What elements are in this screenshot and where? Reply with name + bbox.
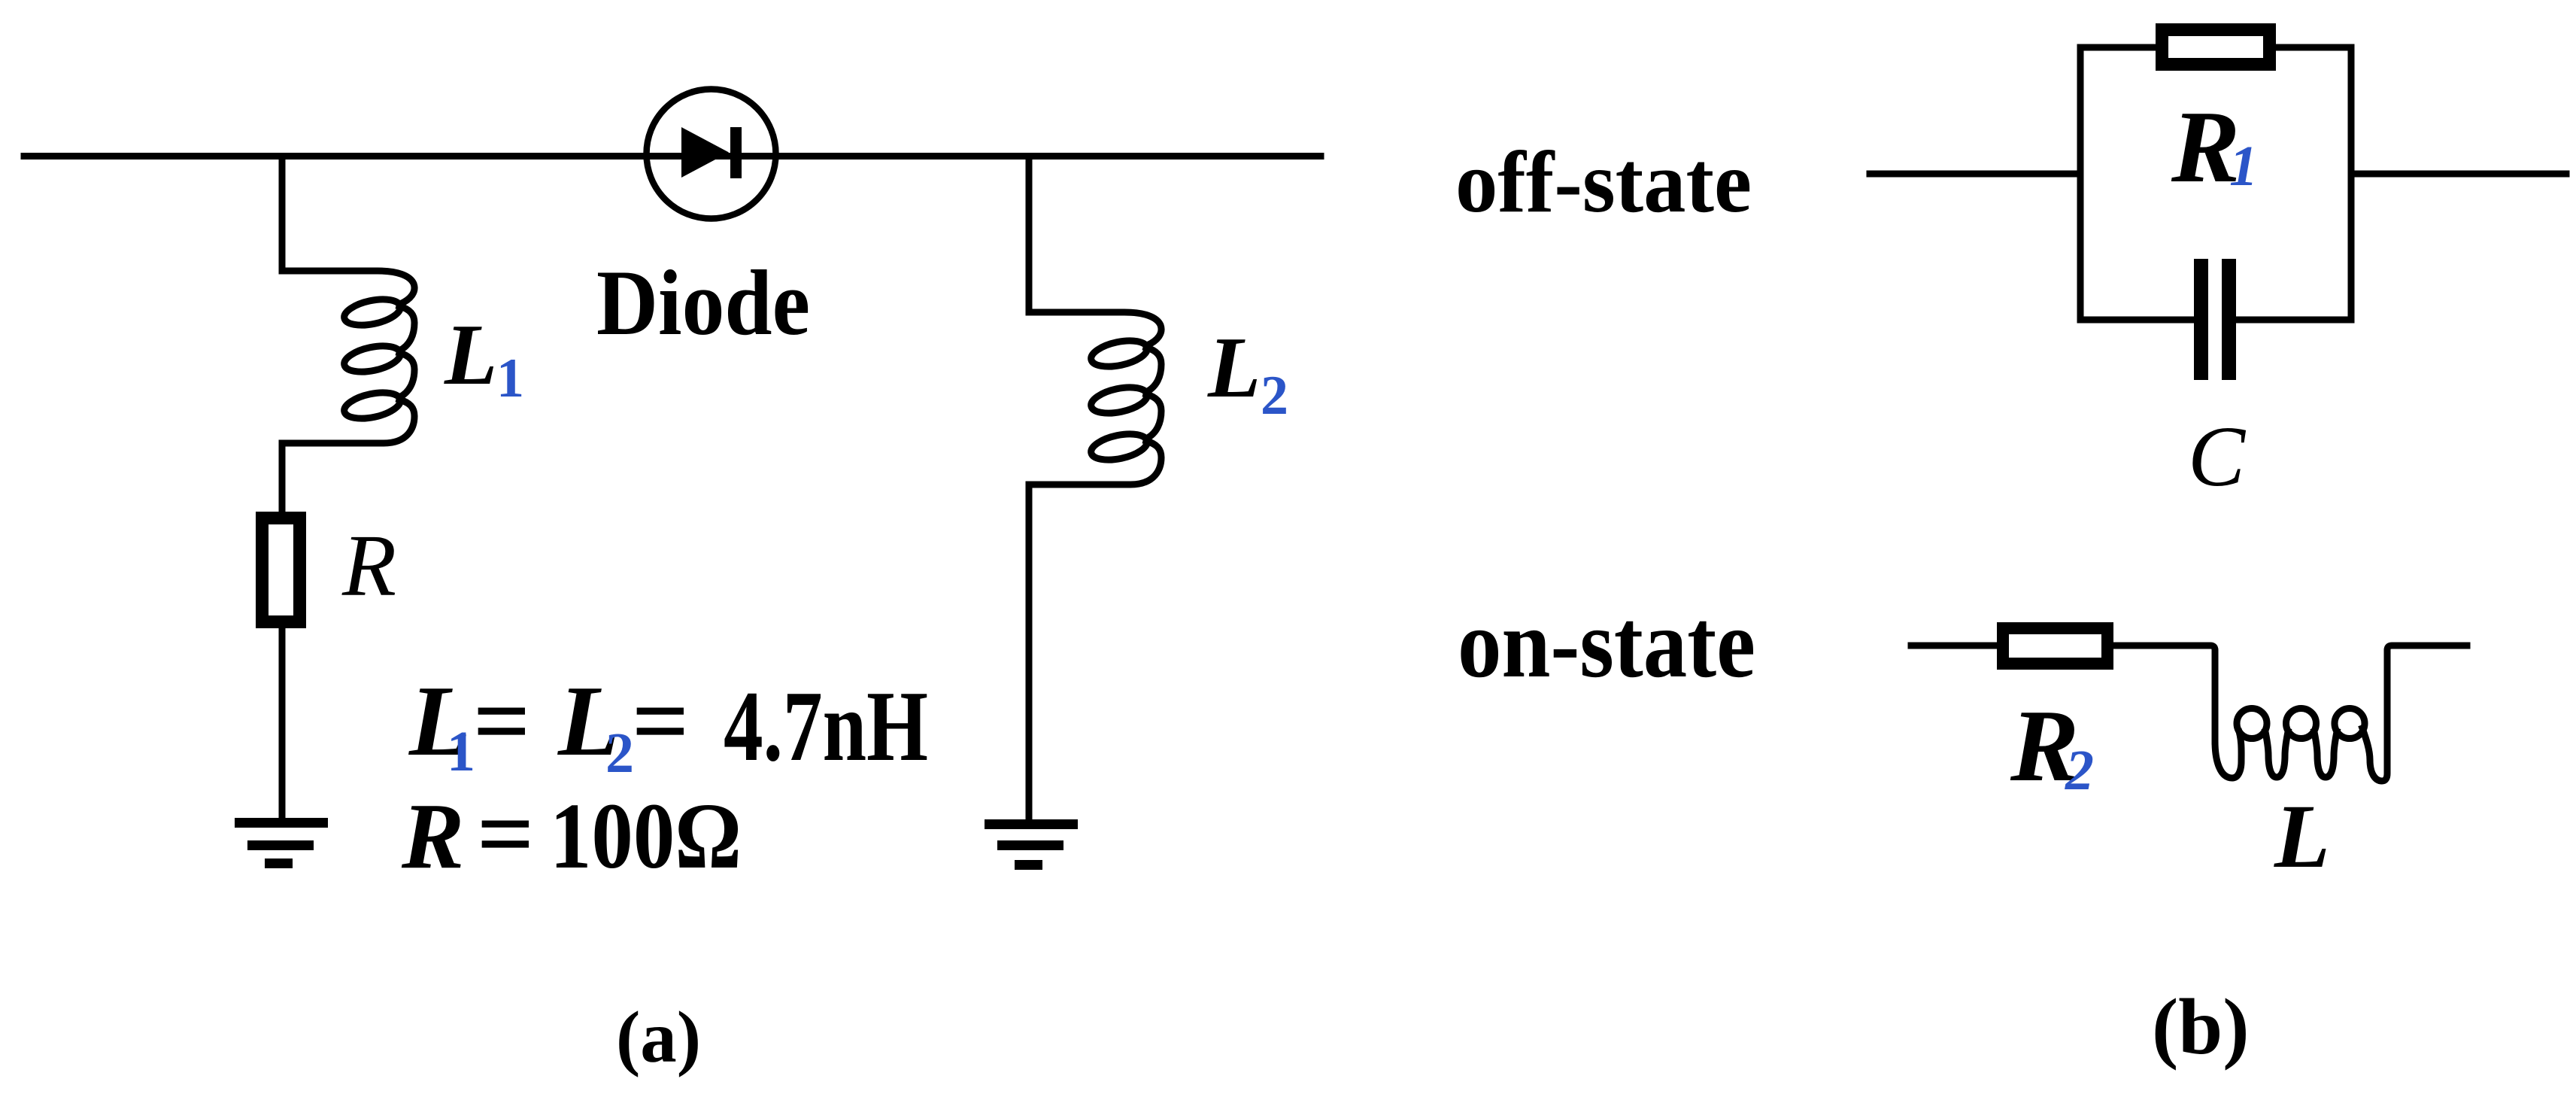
capacitor C plates — [2194, 259, 2236, 380]
resistor R1 — [2162, 30, 2270, 65]
svg-text:1: 1 — [496, 348, 524, 409]
diode D1 cathode bar — [730, 127, 742, 178]
svg-text:(b): (b) — [2152, 983, 2250, 1071]
svg-text:=: = — [477, 778, 534, 889]
inductor L2 — [1029, 312, 1161, 485]
resistor R2 — [2003, 628, 2107, 664]
wire off-state box bottom segments — [2080, 317, 2351, 324]
wire off-state box right — [2348, 47, 2355, 320]
svg-text:L: L — [2274, 786, 2330, 887]
resistor R — [262, 518, 300, 622]
ground GND1 — [235, 818, 328, 868]
svg-text:on-state: on-state — [1458, 590, 1755, 698]
wire junction node to L2 — [1026, 157, 1033, 313]
svg-text:100Ω: 100Ω — [550, 785, 742, 889]
wire off-state box left — [2077, 47, 2084, 320]
wire L1 to resistor R — [279, 443, 286, 512]
svg-text:4.7nH: 4.7nH — [724, 670, 928, 782]
diode D1 circle — [647, 90, 776, 219]
svg-text:2: 2 — [605, 722, 634, 785]
svg-text:L: L — [1207, 320, 1261, 415]
wire off-state right lead — [2351, 171, 2566, 178]
wire main horizontal line (a) — [24, 153, 1321, 160]
svg-text:1: 1 — [2229, 135, 2258, 198]
diode D1 triangle anode — [681, 127, 729, 178]
svg-text:R: R — [341, 516, 396, 615]
svg-text:off-state: off-state — [1455, 134, 1752, 231]
ground GND2 — [985, 819, 1078, 870]
wire R2 to inductor L — [2113, 646, 2215, 741]
wire off-state box top segments — [2080, 44, 2351, 51]
wire resistor R to ground — [279, 628, 286, 818]
svg-text:(a): (a) — [616, 997, 701, 1077]
inductor L1 — [282, 271, 414, 443]
svg-text:2: 2 — [1261, 365, 1288, 427]
inductor L — [2215, 646, 2467, 781]
svg-text:L: L — [444, 307, 497, 403]
wire on-state left lead — [1911, 643, 1997, 649]
svg-text:2: 2 — [2065, 739, 2094, 802]
svg-text:C: C — [2188, 409, 2247, 504]
svg-text:=: = — [473, 665, 530, 776]
wire L2 to ground — [1026, 485, 1033, 818]
wire off-state left lead — [1870, 171, 2080, 178]
svg-text:1: 1 — [447, 720, 475, 783]
wire junction node to L1 — [279, 157, 286, 272]
svg-text:=: = — [632, 665, 689, 776]
svg-text:Diode: Diode — [596, 251, 810, 354]
svg-text:R: R — [401, 785, 464, 889]
